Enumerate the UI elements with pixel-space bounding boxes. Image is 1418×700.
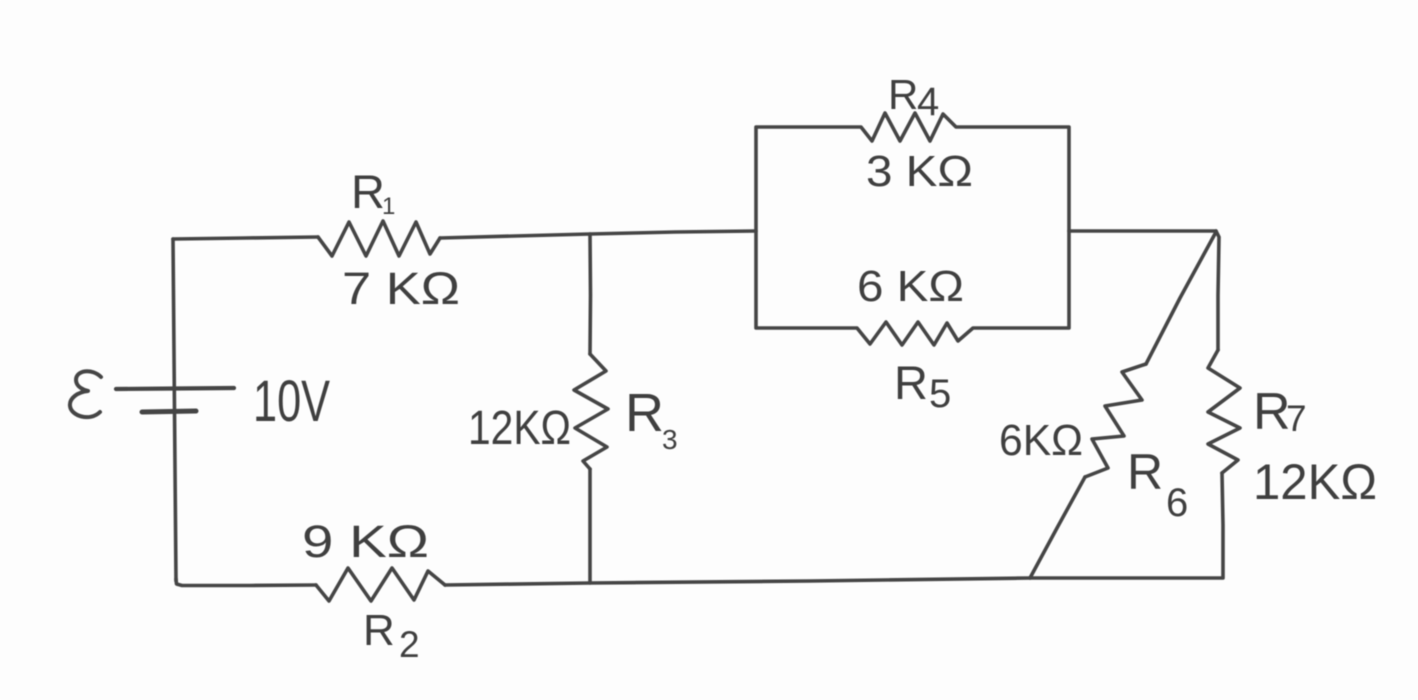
- svg-text:R: R: [351, 165, 385, 218]
- svg-text:9 KΩ: 9 KΩ: [302, 516, 429, 567]
- svg-text:4: 4: [917, 80, 939, 124]
- svg-text:R: R: [894, 356, 928, 409]
- svg-text:12KΩ: 12KΩ: [468, 402, 571, 455]
- svg-text:7: 7: [1286, 398, 1307, 439]
- svg-text:R: R: [625, 383, 664, 443]
- svg-text:R: R: [1127, 444, 1163, 500]
- svg-text:R: R: [1253, 383, 1291, 441]
- svg-text:3: 3: [662, 424, 678, 455]
- svg-text:5: 5: [929, 372, 951, 416]
- svg-text:R: R: [363, 606, 395, 655]
- svg-text:1: 1: [382, 193, 395, 220]
- svg-text:6: 6: [1166, 481, 1188, 525]
- svg-text:12KΩ: 12KΩ: [1253, 454, 1377, 510]
- svg-text:10V: 10V: [253, 369, 330, 434]
- svg-text:2: 2: [399, 624, 420, 665]
- svg-text:R: R: [888, 71, 918, 118]
- svg-text:3 KΩ: 3 KΩ: [866, 147, 973, 196]
- svg-text:6 KΩ: 6 KΩ: [857, 262, 964, 311]
- svg-text:6KΩ: 6KΩ: [999, 416, 1083, 465]
- svg-text:7 KΩ: 7 KΩ: [342, 263, 460, 314]
